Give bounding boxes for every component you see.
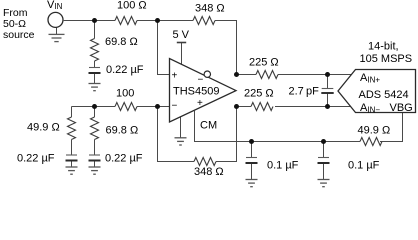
svg-text:−: − — [172, 101, 178, 112]
svg-text:VIN: VIN — [47, 0, 63, 11]
svg-text:348 Ω: 348 Ω — [195, 3, 225, 15]
svg-text:69.8 Ω: 69.8 Ω — [106, 125, 139, 137]
svg-text:225 Ω: 225 Ω — [249, 57, 279, 69]
svg-text:225 Ω: 225 Ω — [244, 88, 274, 100]
svg-text:105 MSPS: 105 MSPS — [360, 53, 413, 65]
svg-text:−: − — [198, 75, 204, 86]
svg-text:0.1 µF: 0.1 µF — [348, 160, 380, 172]
svg-text:ADS 5424: ADS 5424 — [359, 89, 409, 101]
svg-text:69.8 Ω: 69.8 Ω — [105, 36, 138, 48]
svg-text:+: + — [172, 71, 178, 82]
svg-text:5 V: 5 V — [173, 29, 190, 41]
svg-text:0.22 µF: 0.22 µF — [17, 153, 55, 165]
svg-text:THS4509: THS4509 — [173, 86, 219, 98]
svg-text:100: 100 — [116, 88, 134, 100]
svg-text:source: source — [3, 29, 35, 41]
svg-text:0.22 µF: 0.22 µF — [105, 153, 143, 165]
svg-text:CM: CM — [200, 120, 217, 132]
svg-text:49.9 Ω: 49.9 Ω — [358, 125, 391, 137]
svg-text:+: + — [197, 98, 203, 109]
svg-text:49.9 Ω: 49.9 Ω — [27, 122, 60, 134]
svg-text:100 Ω: 100 Ω — [117, 0, 147, 12]
svg-text:2.7 pF: 2.7 pF — [289, 86, 320, 98]
svg-text:0.1 µF: 0.1 µF — [267, 160, 299, 172]
svg-text:348 Ω: 348 Ω — [194, 166, 224, 178]
svg-text:14-bit,: 14-bit, — [368, 41, 399, 53]
svg-text:VBG: VBG — [390, 102, 413, 114]
svg-text:0.22 µF: 0.22 µF — [106, 64, 144, 76]
